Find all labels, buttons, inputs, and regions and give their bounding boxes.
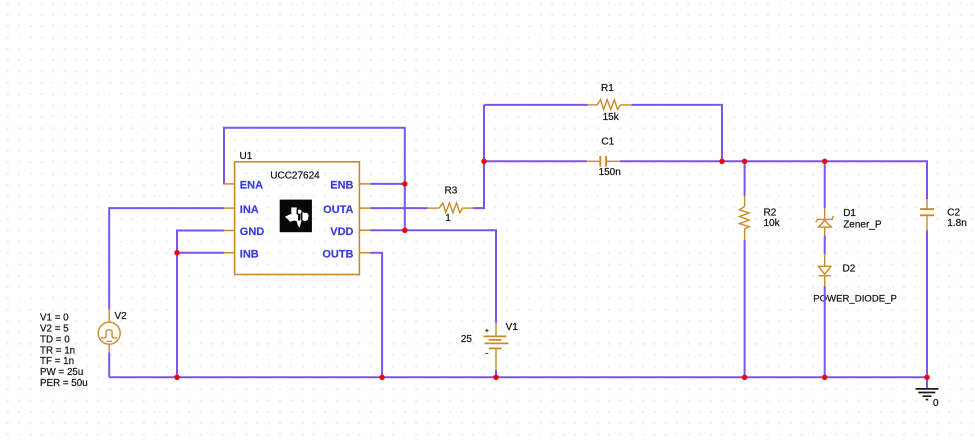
pin ENB stub bbox=[359, 183, 370, 185]
node feedback right bbox=[719, 159, 724, 164]
junction dots layer bbox=[174, 159, 929, 380]
pin OUTA stub bbox=[359, 207, 370, 209]
pin OUTB stub bbox=[359, 252, 370, 254]
node ENB junction bbox=[402, 181, 407, 186]
pin INB stub bbox=[224, 252, 235, 254]
svg-text:150n: 150n bbox=[599, 167, 621, 178]
svg-text:V1: V1 bbox=[506, 322, 519, 333]
svg-text:PER = 50u: PER = 50u bbox=[40, 378, 88, 389]
components layer bbox=[98, 100, 938, 400]
pin VDD stub bbox=[359, 229, 370, 231]
svg-text:R1: R1 bbox=[601, 83, 614, 94]
node rail R2 bbox=[742, 375, 747, 380]
node rail OUTB bbox=[379, 375, 384, 380]
node R2 top bbox=[742, 159, 747, 164]
svg-text:ENB: ENB bbox=[330, 180, 353, 192]
diode D2 POWER_DIODE_P bbox=[819, 254, 831, 286]
wire D2 branch bottom bbox=[824, 286, 826, 377]
source V2 pulse bbox=[98, 309, 120, 352]
wire INB bbox=[177, 252, 224, 254]
capacitor C2 bbox=[920, 199, 934, 230]
svg-text:C1: C1 bbox=[601, 136, 614, 147]
wire ENB stub to node bbox=[371, 183, 405, 185]
resistor R2 bbox=[739, 196, 749, 241]
node rail GND bbox=[174, 375, 179, 380]
node rail ground bbox=[924, 375, 929, 380]
wire D1 branch top bbox=[824, 161, 826, 208]
svg-text:25: 25 bbox=[461, 334, 473, 345]
wire R3 to feedback corner bbox=[473, 105, 484, 208]
TI logo bbox=[280, 200, 312, 233]
svg-text:TD = 0: TD = 0 bbox=[40, 334, 70, 345]
wire ground rail bbox=[109, 376, 927, 378]
wire V2 bottom bbox=[108, 352, 110, 377]
source V1 battery bbox=[483, 323, 508, 370]
wire D1 to D2 bbox=[824, 236, 826, 255]
resistor R1 bbox=[588, 100, 632, 110]
svg-text:R3: R3 bbox=[445, 185, 458, 196]
wire R2 branch top bbox=[744, 161, 746, 195]
svg-text:10k: 10k bbox=[764, 218, 781, 229]
svg-text:D2: D2 bbox=[843, 263, 856, 274]
svg-text:1.8n: 1.8n bbox=[947, 218, 966, 229]
svg-text:GND: GND bbox=[240, 226, 264, 238]
ground bbox=[916, 389, 939, 400]
wire R2 branch bottom bbox=[744, 240, 746, 377]
source V2 parameters bbox=[40, 313, 88, 389]
svg-text:VDD: VDD bbox=[330, 226, 353, 238]
svg-text:ENA: ENA bbox=[240, 180, 263, 192]
svg-text:PW = 25u: PW = 25u bbox=[40, 367, 83, 378]
svg-text:TR = 1n: TR = 1n bbox=[40, 345, 75, 356]
svg-text:Zener_P: Zener_P bbox=[843, 220, 882, 231]
wire ground symbol drop bbox=[926, 377, 928, 388]
wire V1 bottom bbox=[495, 370, 497, 377]
svg-text:1: 1 bbox=[445, 213, 451, 224]
node INB junction bbox=[174, 250, 179, 255]
op-amp U1 UCC27624 body bbox=[235, 162, 360, 275]
svg-text:V1 = 0: V1 = 0 bbox=[40, 313, 69, 324]
wire GND to ground vertical bbox=[177, 231, 224, 378]
svg-text:INB: INB bbox=[240, 249, 259, 261]
node feedback left bbox=[481, 159, 486, 164]
wire INA to V2 bbox=[109, 208, 224, 309]
svg-text:UCC27624: UCC27624 bbox=[270, 171, 320, 182]
node VDD junction bbox=[402, 228, 407, 233]
svg-text:15k: 15k bbox=[603, 112, 620, 123]
wire C1 right to C2 branch top bbox=[620, 161, 927, 199]
svg-text:U1: U1 bbox=[240, 151, 253, 162]
pin ENA stub bbox=[224, 183, 235, 185]
svg-text:C2: C2 bbox=[947, 208, 960, 219]
pin GND stub bbox=[224, 230, 235, 232]
wire C2 branch bottom bbox=[926, 230, 928, 377]
wire ENA loop to ENB/VDD vertical bbox=[224, 128, 405, 231]
wire OUTA to R3 bbox=[371, 207, 428, 209]
svg-text:OUTA: OUTA bbox=[323, 204, 353, 216]
text labels layer bbox=[40, 83, 967, 409]
svg-text:D1: D1 bbox=[843, 208, 856, 219]
svg-text:POWER_DIODE_P: POWER_DIODE_P bbox=[813, 293, 897, 304]
wire R1 right down to C1 row bbox=[632, 105, 722, 161]
node D1 top bbox=[822, 159, 827, 164]
wires layer bbox=[109, 105, 927, 388]
resistor R3 bbox=[428, 203, 473, 213]
svg-text:OUTB: OUTB bbox=[322, 249, 353, 261]
wire OUTB down to rail bbox=[371, 253, 383, 378]
svg-text:R2: R2 bbox=[764, 208, 777, 219]
node rail V1 bbox=[493, 375, 498, 380]
diode D1 Zener_P bbox=[816, 208, 834, 235]
svg-text:INA: INA bbox=[240, 204, 259, 216]
wire R1 left bbox=[484, 104, 588, 106]
wire VDD to V1 bbox=[371, 230, 497, 322]
svg-text:TF = 1n: TF = 1n bbox=[40, 356, 74, 367]
pin INA stub bbox=[224, 207, 235, 209]
wire C1 left bbox=[484, 160, 587, 162]
capacitor C1 bbox=[587, 156, 620, 167]
node rail D2 bbox=[822, 375, 827, 380]
svg-text:V2: V2 bbox=[115, 311, 128, 322]
svg-text:0: 0 bbox=[933, 398, 939, 409]
svg-text:V2 = 5: V2 = 5 bbox=[40, 324, 69, 335]
